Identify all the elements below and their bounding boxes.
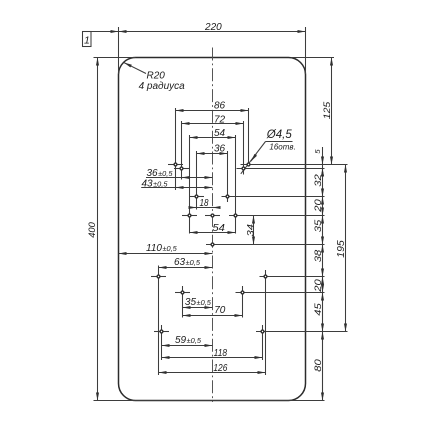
svg-text:54: 54	[212, 223, 225, 234]
row ext right r7	[236, 292, 325, 294]
stub h11	[151, 276, 166, 278]
svg-text:38: 38	[313, 250, 323, 263]
hole 12	[263, 274, 267, 278]
stub h8	[205, 215, 220, 217]
svg-text:86: 86	[214, 101, 226, 112]
svg-text:118: 118	[214, 348, 228, 359]
svg-text:34: 34	[245, 224, 255, 237]
ext top-left	[94, 57, 136, 59]
ext 54 left	[189, 135, 191, 234]
row ext right r6	[260, 276, 325, 278]
ext col hole12	[265, 270, 267, 375]
hole 7	[187, 213, 191, 217]
dim 118	[162, 357, 263, 359]
ext 86 left / 43 left	[175, 108, 177, 190]
svg-text:43±0,5: 43±0,5	[142, 178, 169, 189]
dim 86	[176, 110, 249, 112]
hole 6	[225, 194, 229, 198]
leader R20	[124, 63, 146, 74]
dim 195	[345, 165, 347, 332]
hole 15	[159, 329, 163, 333]
hole 10	[210, 242, 214, 246]
stub h5	[189, 196, 204, 198]
row ext right r4	[229, 215, 325, 217]
svg-text:Ø4,5: Ø4,5	[266, 129, 293, 141]
svg-text:16отв.: 16отв.	[269, 143, 295, 152]
svg-text:400: 400	[87, 222, 98, 238]
dim 63±0,5	[159, 267, 213, 269]
dim 59±0,5	[162, 345, 213, 347]
dim 45	[322, 293, 324, 332]
ext col hole16	[262, 325, 264, 360]
ext 72 left / 36 left	[181, 121, 183, 180]
dim 32	[322, 169, 324, 197]
ext 54 right	[235, 135, 237, 234]
svg-text:125: 125	[322, 101, 333, 119]
hole 14	[240, 290, 244, 294]
ext col hole14	[242, 286, 244, 318]
dim 220	[119, 31, 306, 33]
center axis	[212, 48, 214, 403]
svg-text:59±0,5: 59±0,5	[175, 335, 202, 346]
hole 3	[179, 166, 183, 170]
svg-text:20: 20	[313, 199, 323, 213]
dim 400	[97, 58, 99, 401]
ext 72 right	[243, 121, 245, 175]
svg-text:35: 35	[313, 219, 323, 233]
svg-text:32: 32	[313, 174, 323, 187]
svg-text:220: 220	[204, 22, 222, 33]
svg-text:35±0,5: 35±0,5	[185, 297, 212, 308]
dim 18	[189, 207, 221, 209]
ext col hole11	[158, 266, 160, 376]
svg-text:63±0,5: 63±0,5	[174, 257, 201, 268]
ext 86 right	[248, 108, 250, 165]
svg-text:110±0,5: 110±0,5	[146, 243, 178, 254]
dim 72	[182, 123, 244, 125]
row ext right r8	[256, 331, 348, 333]
dim 20	[322, 197, 324, 216]
hole 16	[260, 329, 264, 333]
dim 80	[322, 332, 324, 401]
svg-text:72: 72	[214, 114, 226, 125]
stub h7	[182, 215, 197, 217]
svg-text:195: 195	[336, 240, 347, 258]
svg-text:54: 54	[214, 128, 226, 139]
dim 125	[331, 58, 333, 165]
dim 70	[183, 315, 243, 317]
ext bottom	[94, 400, 325, 402]
stub h13	[175, 292, 190, 294]
svg-text:36: 36	[214, 144, 226, 155]
leader arrow D4,5	[251, 154, 256, 161]
hole 5	[194, 194, 198, 198]
stub h15	[154, 331, 169, 333]
svg-text:80: 80	[313, 359, 323, 372]
dim 20 lower	[322, 277, 324, 293]
ext 36 right	[227, 151, 229, 202]
svg-text:1: 1	[84, 35, 90, 47]
svg-text:45: 45	[313, 302, 323, 316]
dim 54 lower	[190, 232, 236, 234]
hole 2	[246, 162, 250, 166]
svg-text:18: 18	[200, 198, 209, 209]
dim 126	[159, 372, 266, 374]
ext 220 left	[118, 27, 120, 74]
dim 35	[322, 216, 324, 245]
hole 9	[233, 213, 237, 217]
dim 36±0,5	[146, 177, 213, 179]
row ext right r3	[222, 196, 325, 198]
ext 36 left / 18 left	[196, 151, 198, 210]
row ext right r2	[237, 168, 325, 170]
leader D4,5	[241, 142, 266, 174]
dim 35±0,5	[183, 307, 213, 309]
position flag box 1	[83, 32, 92, 47]
dim 36 upper	[197, 153, 228, 155]
ext col hole15	[161, 325, 163, 360]
stub h3	[174, 168, 189, 170]
ext top-right	[292, 57, 334, 59]
dim 38	[322, 245, 324, 277]
svg-text:4 радиуса: 4 радиуса	[139, 81, 186, 92]
dim 110±0,5	[119, 253, 213, 255]
leader from box 1	[91, 31, 119, 33]
hole 13	[180, 290, 184, 294]
hole 8	[210, 213, 214, 217]
ext 220 right	[305, 27, 307, 74]
dim 43±0,5	[141, 187, 212, 189]
dim 34	[253, 216, 255, 245]
row ext right r1	[241, 164, 348, 166]
svg-text:70: 70	[214, 305, 226, 316]
ext col hole13	[182, 286, 184, 318]
svg-text:126: 126	[213, 363, 227, 374]
hole 4	[241, 166, 245, 170]
right chain line	[322, 147, 324, 401]
shelf D4,5	[266, 141, 293, 143]
dim 54 upper	[190, 137, 236, 139]
row ext right r5	[206, 244, 325, 246]
plate outline	[119, 58, 306, 401]
hole 1	[173, 162, 177, 166]
dim 5	[322, 157, 324, 164]
stub h1	[168, 164, 183, 166]
svg-text:20: 20	[313, 279, 323, 293]
hole 11	[156, 274, 160, 278]
